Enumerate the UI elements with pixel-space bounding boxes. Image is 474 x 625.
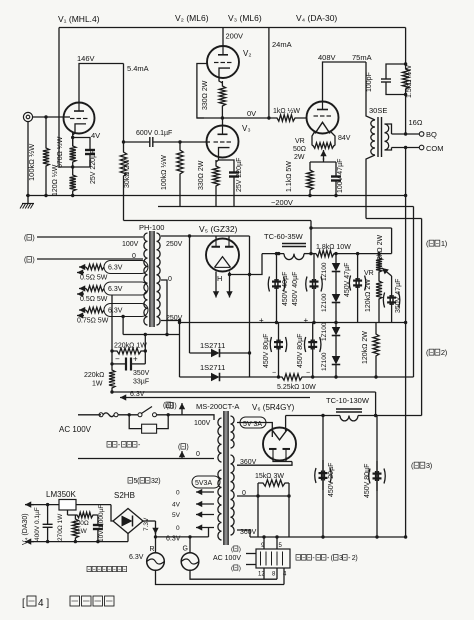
wire B+ to VR — [334, 253, 392, 255]
svg-text:V₆ (5R4GY): V₆ (5R4GY) — [252, 403, 295, 412]
wire BQ line — [392, 133, 420, 135]
resistor 270Ω 1W R18 — [72, 515, 78, 542]
potentiometer VR 50Ω 2W — [312, 143, 335, 149]
resistor 670Ω 1/2W R2 — [70, 138, 76, 168]
svg-text:6.3V: 6.3V — [130, 391, 145, 398]
label スパークキラー — [107, 442, 141, 449]
node mid zener — [334, 321, 337, 324]
node 220k right — [144, 349, 147, 352]
fuse F1 — [99, 413, 103, 417]
relay H3Y-2 box — [256, 549, 290, 568]
wire ADJ — [67, 510, 69, 515]
svg-text:1Z100: 1Z100 — [321, 322, 328, 341]
wire 392 drop to TC10 — [375, 392, 377, 416]
svg-text:1Z100: 1Z100 — [321, 262, 328, 281]
OPT 30SE secondary — [385, 124, 389, 150]
wire cap bottom to node — [73, 160, 90, 167]
wire cathode node line — [310, 161, 336, 163]
wire V2 cathode lead — [219, 74, 222, 84]
node rail A gnd bus — [404, 194, 407, 197]
resistor 1kΩ 1/2W R8 — [269, 115, 307, 121]
svg-text:146V: 146V — [77, 54, 95, 63]
node rail A R2 — [71, 194, 74, 197]
MS-200CT primary 5V — [218, 470, 222, 540]
svg-text:7.3V: 7.3V — [143, 517, 150, 531]
capacitor 450V 47µF C11 — [349, 254, 366, 323]
diode 1S2711 D1 — [190, 349, 250, 358]
svg-text:AC 100V: AC 100V — [213, 555, 241, 562]
node reg c15 top — [46, 503, 49, 506]
svg-text:10V 1,000µF: 10V 1,000µF — [98, 505, 105, 542]
wire relay coil a — [246, 553, 256, 555]
wire PSU1 out line — [311, 227, 392, 229]
node lamp G top — [188, 535, 191, 538]
svg-text:25V 220µF: 25V 220µF — [90, 150, 97, 184]
label (イ) — [24, 235, 35, 242]
wire 250V top tap — [161, 235, 250, 237]
OPT 30SE primary — [371, 120, 375, 155]
svg-text:1S2711: 1S2711 — [200, 363, 225, 372]
wire filament left — [312, 131, 315, 143]
label 電源3 — [411, 461, 433, 470]
terminal COM — [419, 145, 424, 150]
svg-text:0.75Ω 5W: 0.75Ω 5W — [77, 318, 109, 325]
svg-text:75mA: 75mA — [352, 53, 372, 62]
callout 5V3A left — [192, 476, 220, 488]
label タイマーリレー(H3Y-2) — [296, 555, 358, 562]
terminal BQ — [419, 132, 424, 137]
svg-text:120Ω ½W: 120Ω ½W — [51, 164, 59, 196]
node TC10 c13 — [321, 414, 324, 417]
node V5 output — [228, 273, 231, 276]
wire 0 tap — [161, 280, 167, 335]
node rail A jack — [26, 194, 29, 197]
relay pin 9 — [263, 537, 265, 549]
capacitor 450V 80µF C10 — [304, 323, 321, 378]
heater arrow b row2 — [77, 291, 84, 297]
svg-text:4V: 4V — [91, 131, 100, 140]
wire heater CT drop — [122, 317, 124, 335]
wire 0V node line — [197, 117, 269, 119]
svg-text:AC 100V: AC 100V — [59, 425, 92, 434]
svg-text:4 ]: 4 ] — [38, 598, 49, 609]
label (ロ) ac — [178, 444, 189, 451]
resistor 5.25kΩ 10W R16 — [250, 374, 414, 380]
node 0tap b — [287, 494, 290, 497]
capacitor 350V 47µF C12 — [383, 287, 400, 323]
node mid C7 — [275, 321, 278, 324]
svg-text:100pF: 100pF — [366, 72, 373, 92]
svg-text:): ) — [32, 257, 34, 264]
resistor 1.8kΩ 10W R13 — [316, 250, 336, 256]
svg-text:−: − — [115, 355, 120, 364]
V5 heater pin left — [213, 272, 219, 298]
svg-text:450V 40µF: 450V 40µF — [292, 272, 299, 306]
wire choke out riser — [310, 221, 312, 254]
svg-text:12: 12 — [258, 572, 265, 578]
resistor 330Ω 2W R7 — [213, 160, 219, 207]
svg-text:V₅ (GZ32): V₅ (GZ32) — [199, 224, 238, 234]
svg-text:5.25kΩ 10W: 5.25kΩ 10W — [277, 384, 316, 391]
resistor 100kΩ 1/2W R1 — [43, 117, 49, 196]
wire OPT secondary bottom — [385, 148, 392, 151]
node bias 334 mid — [144, 333, 147, 336]
wire 0tap down b — [288, 496, 290, 537]
svg-text:450V 20µF: 450V 20µF — [328, 463, 335, 497]
wire wiper down — [323, 158, 325, 162]
wire bias line 334 — [123, 334, 179, 336]
svg-text:COM: COM — [426, 144, 444, 153]
wire AC line1 — [78, 414, 101, 416]
svg-text:450V 80µF: 450V 80µF — [263, 334, 270, 368]
pot wiper arrow — [320, 150, 326, 160]
wire V3 grid entry — [207, 141, 211, 143]
wire B+ after choke — [304, 253, 316, 255]
resistor 220kΩ 1W R11 — [112, 348, 145, 354]
svg-text:15kΩ 3W: 15kΩ 3W — [255, 473, 284, 480]
wire C14 drop — [376, 416, 378, 538]
wire ground bus right — [405, 148, 407, 538]
ground input — [20, 196, 34, 209]
node heater CT — [121, 315, 124, 318]
heater arrow a row3 — [79, 307, 86, 313]
wire 218 drop — [421, 219, 423, 416]
wire V5 left plate — [215, 236, 217, 239]
svg-text:450V 47µF: 450V 47µF — [344, 263, 351, 297]
arrow reg out left — [25, 501, 34, 507]
svg-text:MS-200CT-A: MS-200CT-A — [196, 402, 239, 411]
wire 360V top tap — [237, 462, 292, 466]
wire V2 grid to node — [197, 64, 207, 119]
svg-text:360V: 360V — [240, 459, 257, 466]
node V3 grid leak — [178, 140, 181, 143]
svg-text:0: 0 — [176, 490, 180, 497]
rectifier tube V6 5R4GY — [263, 428, 296, 461]
arrow (ロ) up — [179, 451, 185, 459]
node zobel top — [404, 62, 407, 65]
svg-text:16Ω: 16Ω — [409, 118, 423, 127]
wire row2 drop — [111, 295, 113, 351]
node bias 334 right — [165, 333, 168, 336]
svg-text:450V 80µF: 450V 80µF — [297, 334, 304, 368]
heater arrow a row1 — [79, 264, 86, 270]
wire -200V rail B — [158, 206, 414, 208]
pot ends — [311, 143, 313, 146]
capacitor 450V 20µF C13 — [315, 460, 332, 490]
wire feedback left drop — [59, 28, 73, 168]
node reg c15 bot — [46, 540, 49, 543]
node 377 c7 — [277, 375, 280, 378]
callout 5V3A right — [240, 417, 266, 428]
resistor 100kΩ 1/2W R5 — [177, 142, 183, 207]
wire V3 cathode lead — [216, 153, 219, 162]
svg-text:330Ω 2W: 330Ω 2W — [198, 160, 205, 190]
rectifier tube V5 GZ32 — [206, 239, 239, 272]
pilot lamp R — [147, 553, 165, 571]
wire V6 plates bar — [273, 456, 292, 461]
svg-text:50Ω: 50Ω — [293, 146, 306, 153]
svg-text:1S2711: 1S2711 — [200, 341, 225, 350]
heater arrow b row3 — [77, 312, 84, 318]
wire OPT B+ feed — [366, 155, 375, 219]
wire tap (i) — [37, 236, 143, 238]
svg-text:100kΩ ½W: 100kΩ ½W — [160, 155, 168, 190]
spark killer box — [142, 424, 157, 433]
wire V6 right plate — [285, 456, 287, 461]
svg-text:5.4mA: 5.4mA — [127, 64, 149, 73]
svg-text:PH-100: PH-100 — [139, 223, 164, 232]
svg-text:100kΩ ½W: 100kΩ ½W — [27, 143, 36, 181]
svg-text:1.1kΩ 5W: 1.1kΩ 5W — [286, 161, 293, 192]
heater arrow b row1 — [77, 269, 84, 275]
node 377 c8 — [311, 375, 314, 378]
node rail A R1 — [44, 194, 47, 197]
capacitor 25V 220µF C3 — [229, 168, 239, 207]
relay pin 4 — [283, 568, 285, 585]
svg-text:270Ω 1W: 270Ω 1W — [57, 513, 64, 541]
wire 7.3V drop — [152, 521, 158, 534]
svg-text:5V: 5V — [172, 512, 181, 519]
regulator LM350K box — [59, 500, 76, 511]
svg-text:−: − — [306, 370, 310, 377]
node BQ fb — [404, 132, 407, 135]
svg-text:[: [ — [22, 598, 25, 609]
wire 250V bottom tap — [161, 320, 180, 322]
svg-text:R: R — [150, 546, 155, 553]
output tube V4 DA-30 — [307, 102, 339, 134]
capacitor 450V 40µF C7 — [268, 254, 285, 323]
capacitor 400V 0.1µF C15 — [43, 505, 53, 542]
wire RC right — [144, 351, 146, 364]
node rail A 47µF — [334, 194, 337, 197]
diode 1S2711 D2 — [180, 373, 250, 382]
wire 15k right — [288, 483, 290, 496]
V5 heater pin right — [226, 272, 232, 298]
svg-text:0.5Ω 5W: 0.5Ω 5W — [80, 275, 108, 282]
svg-text:25V 220µF: 25V 220µF — [236, 158, 243, 192]
svg-text:0: 0 — [168, 276, 172, 283]
wire PSU1 out right drop — [391, 228, 393, 254]
wire tap (ro) — [37, 258, 143, 260]
svg-text:): ) — [158, 478, 160, 485]
svg-text:450V 80µF: 450V 80µF — [364, 464, 371, 498]
svg-text:350V: 350V — [133, 370, 150, 377]
wire bias right drop — [144, 335, 146, 352]
svg-text:1Z100: 1Z100 — [321, 352, 328, 371]
svg-text:6.3V: 6.3V — [108, 265, 123, 272]
svg-text:−200V: −200V — [271, 198, 293, 207]
svg-text:24mA: 24mA — [272, 40, 292, 49]
svg-text:G: G — [183, 546, 188, 553]
wire top tap drop — [189, 236, 191, 353]
wire relay coil b — [246, 564, 256, 566]
wire PSU3 bottom rail — [250, 536, 406, 538]
wire top feedback line — [59, 27, 406, 29]
node psu3 b — [375, 535, 378, 538]
svg-text:1W: 1W — [77, 528, 88, 535]
label (ロ) relay — [231, 565, 241, 572]
label (イ) relay — [231, 546, 241, 553]
capacitor 25V 220µF C1 — [85, 146, 95, 167]
node cap C7 top — [275, 252, 278, 255]
wire V5 output — [230, 254, 263, 275]
svg-text:): ) — [239, 546, 241, 553]
wire B+ line — [262, 253, 284, 255]
node rail 392 R12 — [110, 390, 113, 393]
wire mid rail — [180, 322, 406, 324]
wire 360V bottom tap — [237, 530, 250, 537]
svg-text:84V: 84V — [338, 135, 351, 142]
zener 1Z100 Z1 — [332, 254, 341, 288]
node diode bus b — [248, 351, 251, 354]
svg-text:1kΩ ½W: 1kΩ ½W — [273, 107, 300, 115]
node COM gnd — [404, 146, 407, 149]
svg-text:0: 0 — [176, 525, 180, 532]
svg-text:1W: 1W — [92, 381, 103, 388]
label (イ) ac — [163, 402, 174, 409]
svg-text:): ) — [186, 444, 188, 451]
node spark b — [167, 413, 170, 416]
svg-text:S2HB: S2HB — [114, 491, 135, 500]
node 250V bottom — [178, 319, 181, 322]
svg-text:−: − — [272, 370, 276, 377]
resistor 15kΩ 3W R17 — [258, 480, 289, 486]
relay pin 5 — [276, 537, 278, 549]
wire 7.3 to lamp — [155, 531, 157, 553]
svg-text:670Ω ½W: 670Ω ½W — [56, 136, 64, 168]
choke TC-60-35W core — [282, 243, 306, 245]
svg-text:LM350K: LM350K — [46, 490, 76, 499]
node rail A 1.1k — [308, 194, 311, 197]
wire 6.3V lamp line — [156, 536, 209, 538]
node V1 cathode — [71, 136, 74, 139]
PH-100 primary coil — [144, 233, 148, 325]
svg-text:1Z100: 1Z100 — [321, 293, 328, 312]
node 220k left — [110, 349, 113, 352]
resistor 1.5kΩ 1/2W R10 — [402, 64, 408, 134]
svg-text:V₃ (ML6): V₃ (ML6) — [228, 13, 262, 23]
svg-text:120Ω: 120Ω — [73, 520, 89, 527]
node relay 5 — [275, 535, 278, 538]
wire 47µF drop — [335, 162, 337, 172]
svg-text:6.3V: 6.3V — [129, 554, 144, 561]
label (イ) lower — [166, 403, 177, 410]
wire 218 line — [366, 218, 422, 220]
svg-text:330Ω 2W: 330Ω 2W — [202, 80, 209, 110]
wire jack shield down — [27, 122, 29, 196]
node psu1 c — [377, 252, 380, 255]
wire C13 drop — [322, 416, 324, 538]
node 270 bot — [74, 540, 77, 543]
wire V4 plate lead — [323, 62, 367, 102]
wire reg bottom rail — [26, 541, 128, 543]
svg-text:V₄ (DA30): V₄ (DA30) — [22, 513, 29, 545]
svg-text:100V: 100V — [194, 420, 211, 427]
wire 6.3 from trans — [208, 528, 210, 537]
resistor 0.5Ω 5W row1 — [86, 264, 104, 270]
wire zobel cap bottom — [386, 93, 406, 95]
wire TC10 line b — [358, 415, 422, 417]
triode V3 — [207, 126, 239, 158]
node 24mA — [267, 116, 270, 119]
heater arrow a row2 — [79, 285, 86, 291]
label パイロットランプ — [87, 566, 127, 571]
label 電源2 — [426, 348, 448, 357]
svg-text:): ) — [239, 565, 241, 572]
wire V3 cathode cap branch — [219, 160, 235, 168]
tap 4V 504 — [196, 501, 214, 507]
choke TC-10-130W core — [336, 408, 362, 410]
svg-text:0: 0 — [242, 490, 246, 497]
svg-text:120kΩ 2W: 120kΩ 2W — [365, 279, 372, 312]
switch S1 — [138, 413, 142, 417]
wire diode bus — [249, 236, 251, 377]
svg-text:30kΩ 2W: 30kΩ 2W — [124, 159, 131, 188]
triode V2 — [207, 46, 239, 78]
svg-text:VR: VR — [295, 138, 305, 145]
svg-text:3kΩ 2W: 3kΩ 2W — [377, 235, 384, 260]
PH-100 core — [150, 231, 154, 327]
wire filament right — [330, 131, 335, 143]
svg-text:TC-60-35W: TC-60-35W — [264, 232, 304, 241]
wire V1 cathode — [73, 129, 75, 135]
tap 0 527.5 — [196, 524, 214, 530]
svg-text:4V: 4V — [172, 502, 181, 509]
arrow (イ) up — [179, 403, 185, 415]
wire bridge bottom — [127, 534, 129, 542]
wire AC line1 b — [118, 414, 138, 416]
capacitor 450V 80µF C9 — [270, 323, 287, 378]
node coupling — [122, 140, 125, 143]
capacitor 450V 80µF C14 — [369, 461, 386, 491]
node diode bus a — [248, 273, 251, 276]
arrow reg gnd left — [25, 538, 34, 544]
node c16 bot — [96, 540, 99, 543]
caption 図4 全回路図 — [22, 596, 114, 609]
resistor 330Ω 2W R6 — [219, 81, 225, 118]
node TC10 drop — [374, 414, 377, 417]
wire COM line — [392, 147, 420, 149]
svg-text:6.3V: 6.3V — [108, 308, 123, 315]
capacitor 350V 33µF C6 — [112, 363, 126, 365]
svg-text:33µF: 33µF — [133, 379, 149, 386]
svg-text:450V 40µF: 450V 40µF — [282, 272, 289, 306]
label V5(GZ32) lower — [128, 478, 161, 485]
svg-text:360V: 360V — [240, 529, 257, 536]
wire G lamp drop — [189, 537, 191, 553]
node mid rail left — [178, 321, 181, 324]
svg-text:0.5Ω 5W: 0.5Ω 5W — [80, 296, 108, 303]
svg-text:200V: 200V — [226, 32, 244, 41]
wire spark killer right — [157, 415, 169, 429]
node mid C8 — [312, 321, 315, 324]
svg-text:+: + — [304, 316, 309, 325]
resistor 1.1kΩ 5W R9 — [307, 162, 313, 196]
bridge rectifier S2HB — [113, 509, 143, 534]
heater winding 6.3V row1 — [104, 261, 148, 274]
svg-text:5V3A: 5V3A — [195, 480, 212, 487]
wire 15k left — [257, 483, 259, 496]
node 250V top — [188, 234, 191, 237]
zener 1Z100 Z4 — [332, 346, 341, 377]
node lamp R top — [154, 535, 157, 538]
resistor 220kΩ 1W R12 — [109, 364, 115, 392]
MS-200CT core — [224, 411, 228, 545]
wire lamp G bottom — [190, 570, 277, 579]
wire heater rail 392 — [112, 391, 376, 393]
resistor 0.75Ω 5W row3 — [86, 307, 104, 313]
resistor 120kΩ 2W R14 — [376, 276, 382, 323]
